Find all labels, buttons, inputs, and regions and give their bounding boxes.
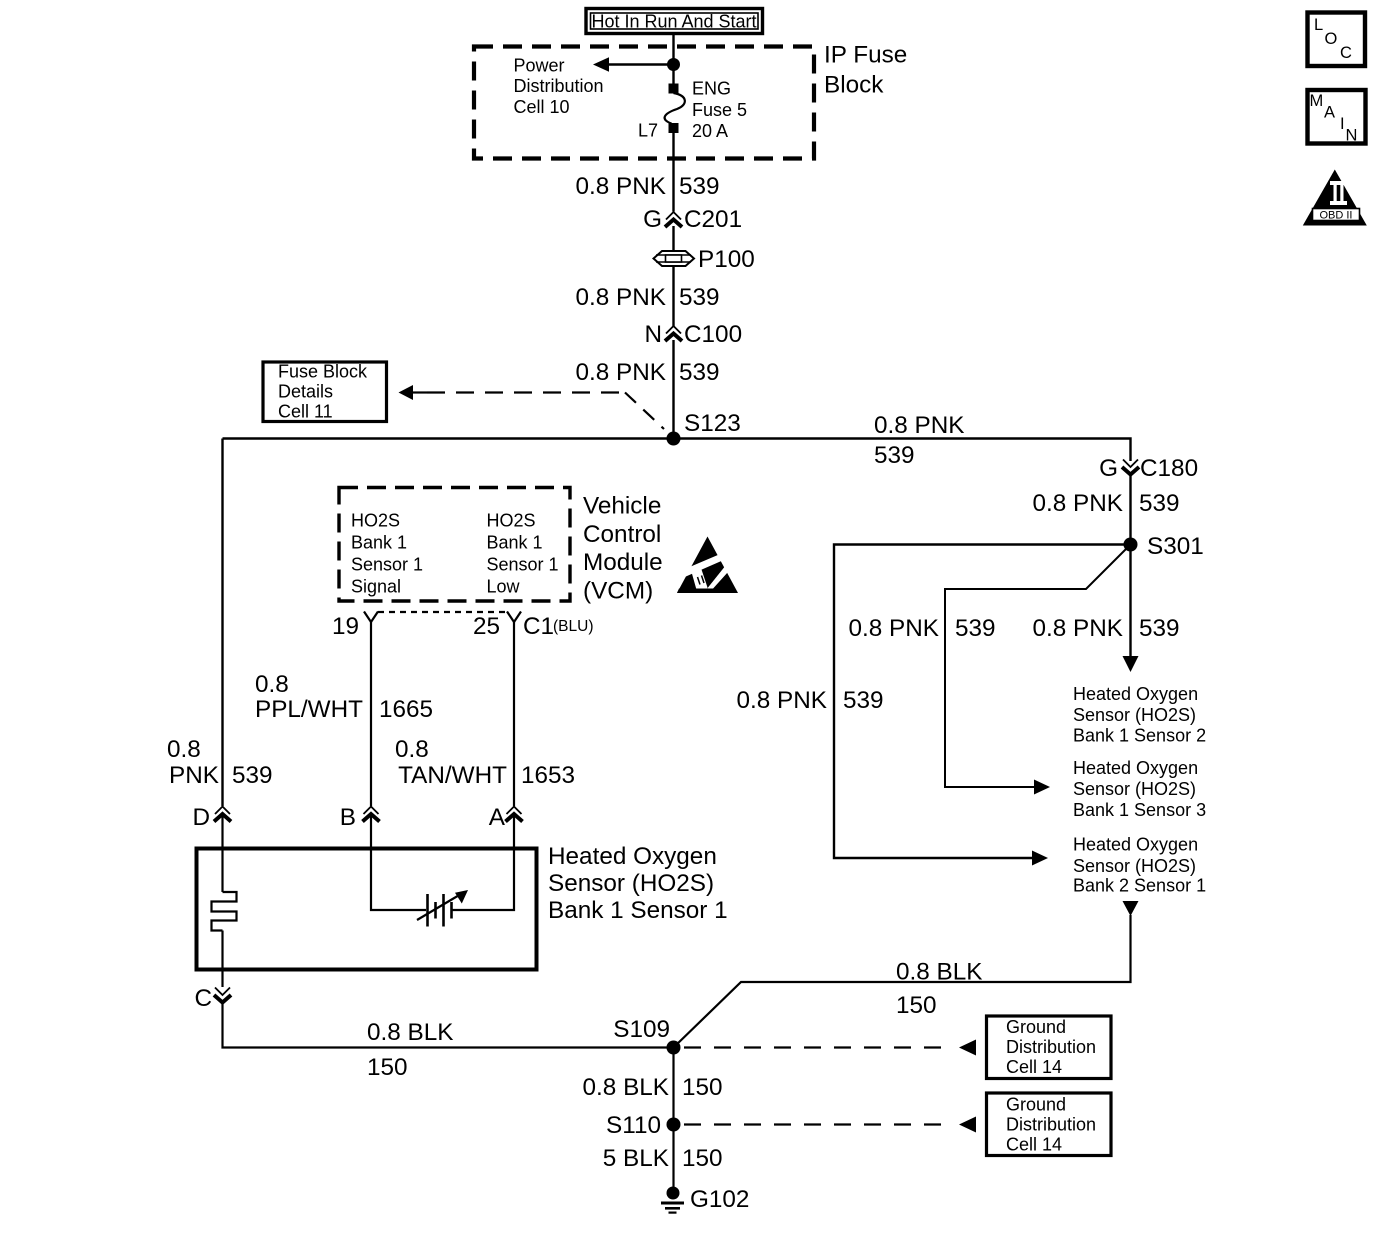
- svg-text:S301: S301: [1147, 533, 1204, 560]
- svg-text:0.8 PNK: 0.8 PNK: [576, 284, 667, 311]
- svg-text:539: 539: [843, 687, 884, 714]
- wire S123 left branch down to D: [221, 439, 223, 807]
- wire VCM pin 25 to A: [513, 622, 515, 806]
- svg-text:Sensor (HO2S): Sensor (HO2S): [1073, 705, 1196, 725]
- wire S123 to left branch: [223, 437, 674, 439]
- grommet P100: [654, 251, 695, 266]
- svg-text:150: 150: [682, 1145, 723, 1172]
- node Fuse Block Details Cell 11 box: [263, 362, 387, 422]
- svg-text:(BLU): (BLU): [553, 618, 593, 635]
- svg-text:Cell 10: Cell 10: [514, 97, 570, 117]
- wire sense element to A: [452, 813, 515, 910]
- wire S301 left branch to HO2S Bank 2 Sensor 1: [834, 545, 1131, 866]
- svg-text:Bank 1: Bank 1: [487, 533, 543, 553]
- ground G102: [661, 1186, 749, 1214]
- node wire label 0.8 PNK 539 (C100 to S123): [576, 359, 720, 386]
- node HO2S Bank 1 Sensor 2 label: [1073, 684, 1206, 746]
- svg-text:0.8 PNK: 0.8 PNK: [737, 687, 828, 714]
- wire S301 down to HO2S Bank 1 Sensor 2 arrow: [1123, 545, 1139, 673]
- connector pin C chevrons: [194, 985, 231, 1012]
- wire C180 to S301: [1129, 474, 1131, 544]
- svg-text:Fuse Block: Fuse Block: [278, 362, 368, 382]
- node connector C1 (BLU) label: [523, 613, 593, 640]
- wire dashed reference to Ground Distribution (S109): [684, 1040, 976, 1056]
- wire dashed connector C1 face line: [378, 611, 508, 613]
- svg-text:G: G: [643, 206, 662, 233]
- node splice S123: [667, 410, 741, 446]
- svg-text:Fuse 5: Fuse 5: [692, 100, 747, 120]
- node wire label 5 BLK 150: [603, 1145, 723, 1172]
- node VCM HO2S Low label: [487, 511, 559, 597]
- svg-text:Heated Oxygen: Heated Oxygen: [1073, 835, 1198, 855]
- svg-text:N: N: [1346, 127, 1358, 145]
- svg-text:S109: S109: [613, 1016, 670, 1043]
- wire from Hot banner into fuse: [672, 34, 674, 85]
- svg-text:P100: P100: [698, 246, 755, 273]
- wire C201 to P100: [672, 226, 674, 251]
- svg-text:Cell 14: Cell 14: [1006, 1135, 1062, 1155]
- node ENG Fuse 5 20 A label: [692, 79, 747, 142]
- svg-text:C100: C100: [684, 321, 742, 348]
- svg-text:HO2S: HO2S: [487, 511, 536, 531]
- node MAIN legend box: [1308, 90, 1366, 145]
- heater element (square wave): [212, 892, 237, 931]
- svg-text:Heated Oxygen: Heated Oxygen: [548, 843, 717, 870]
- svg-text:ENG: ENG: [692, 79, 731, 99]
- node connector C201 label: [643, 206, 742, 233]
- node HO2S Bank 1 Sensor 3 label: [1073, 758, 1206, 820]
- node wire label 0.8 BLK 150 (S109 to S110): [583, 1074, 723, 1101]
- svg-text:1665: 1665: [379, 696, 433, 723]
- wire fuse to S123: [672, 132, 674, 212]
- wire D into heater element: [221, 813, 223, 892]
- svg-text:Bank 1 Sensor 2: Bank 1 Sensor 2: [1073, 726, 1206, 746]
- svg-text:TAN/WHT: TAN/WHT: [398, 762, 507, 789]
- svg-text:G: G: [1099, 455, 1118, 482]
- node Ground Distribution Cell 14 box (upper): [987, 1016, 1112, 1079]
- connector pin A chevrons: [489, 804, 523, 831]
- svg-text:PNK: PNK: [169, 762, 219, 789]
- wire S123 to right branch: [674, 439, 1131, 462]
- svg-text:0.8: 0.8: [167, 736, 201, 763]
- svg-text:Bank 1: Bank 1: [351, 533, 407, 553]
- node wire label 0.8 PNK 539 (S123 right): [874, 412, 965, 469]
- svg-text:0.8: 0.8: [395, 736, 429, 763]
- svg-text:Sensor (HO2S): Sensor (HO2S): [548, 870, 714, 897]
- connector C180 pin G chevrons: [1122, 460, 1139, 475]
- svg-text:OBD II: OBD II: [1319, 210, 1352, 222]
- svg-text:Block: Block: [824, 72, 884, 99]
- node wire label 0.8 BLK 150 (to S109 diagonal): [896, 959, 982, 1020]
- svg-text:M: M: [1310, 92, 1324, 110]
- svg-text:539: 539: [1139, 490, 1180, 517]
- Heated Oxygen Sensor box: [197, 849, 537, 970]
- wire arrow to Power Distribution Cell 10: [593, 57, 674, 72]
- svg-text:150: 150: [367, 1054, 408, 1081]
- node wire label 0.8 PNK 539 (left branch): [167, 736, 273, 789]
- node Vehicle Control Module (VCM) label: [583, 493, 663, 605]
- svg-text:0.8 BLK: 0.8 BLK: [896, 959, 982, 986]
- svg-text:539: 539: [232, 762, 273, 789]
- svg-text:Cell 14: Cell 14: [1006, 1057, 1062, 1077]
- svg-text:1653: 1653: [521, 762, 575, 789]
- svg-text:0.8 BLK: 0.8 BLK: [367, 1019, 453, 1046]
- node VCM HO2S Signal label: [351, 511, 423, 597]
- node IP Fuse Block label: [824, 42, 907, 99]
- connector C201 pin G chevrons: [665, 212, 682, 227]
- svg-text:539: 539: [679, 284, 720, 311]
- svg-text:C: C: [1340, 44, 1352, 62]
- IP Fuse Block dashed box: [474, 47, 814, 159]
- svg-text:N: N: [644, 321, 662, 348]
- wire P100 to C100: [672, 266, 674, 326]
- svg-text:B: B: [340, 804, 356, 831]
- svg-text:G102: G102: [690, 1186, 749, 1213]
- svg-text:5 BLK: 5 BLK: [603, 1145, 669, 1172]
- node HO2S Bank 2 Sensor 1 label: [1073, 835, 1206, 896]
- node wire label 0.8 PNK 539 (C180 to S301): [1033, 490, 1180, 517]
- node splice S110: [606, 1112, 680, 1139]
- svg-text:Vehicle: Vehicle: [583, 493, 661, 520]
- connector C1 pin 25 Y symbol: [507, 612, 521, 623]
- svg-text:Sensor (HO2S): Sensor (HO2S): [1073, 779, 1196, 799]
- svg-text:150: 150: [896, 992, 937, 1019]
- svg-text:0.8 BLK: 0.8 BLK: [583, 1074, 669, 1101]
- wire S110 to G102: [672, 1125, 674, 1191]
- wire S301 diagonal branch to HO2S Bank 1 Sensor 3: [945, 548, 1127, 795]
- node Power Distribution Cell 10 label: [514, 56, 604, 118]
- svg-text:S123: S123: [684, 410, 741, 437]
- svg-text:Control: Control: [583, 521, 661, 548]
- wire dashed reference to Ground Distribution (S110): [684, 1117, 976, 1133]
- svg-text:Heated Oxygen: Heated Oxygen: [1073, 684, 1198, 704]
- svg-text:Sensor (HO2S): Sensor (HO2S): [1073, 856, 1196, 876]
- wire from HO2S Bank 2 Sensor 1 ground lead down to S109: [674, 901, 1139, 1048]
- svg-text:C180: C180: [1140, 455, 1198, 482]
- node Hot In Run And Start banner: [586, 9, 763, 34]
- svg-text:IP Fuse: IP Fuse: [824, 42, 907, 69]
- svg-text:Module: Module: [583, 549, 663, 576]
- svg-text:539: 539: [955, 615, 996, 642]
- svg-text:PPL/WHT: PPL/WHT: [255, 696, 363, 723]
- svg-text:Ground: Ground: [1006, 1017, 1066, 1037]
- svg-text:C201: C201: [684, 206, 742, 233]
- svg-text:HO2S: HO2S: [351, 511, 400, 531]
- node splice S109: [613, 1016, 680, 1055]
- svg-text:0.8 PNK: 0.8 PNK: [576, 173, 667, 200]
- svg-text:20 A: 20 A: [692, 121, 728, 141]
- node wire label 0.8 PNK 539 (branch to Bank 2 Sensor 1): [737, 687, 884, 714]
- svg-text:25: 25: [473, 613, 500, 640]
- svg-text:(VCM): (VCM): [583, 578, 653, 605]
- fuse ENG Fuse 5 20 A: [665, 84, 685, 134]
- wire C down to S109: [223, 1001, 674, 1048]
- svg-text:O: O: [1325, 30, 1338, 48]
- wire B inside sensor: [371, 813, 426, 910]
- svg-text:Sensor 1: Sensor 1: [351, 555, 423, 575]
- svg-text:A: A: [489, 804, 506, 831]
- svg-text:0.8 PNK: 0.8 PNK: [1033, 615, 1124, 642]
- node LOC legend box: [1308, 13, 1366, 67]
- svg-text:Bank 2 Sensor 1: Bank 2 Sensor 1: [1073, 876, 1206, 896]
- svg-text:I: I: [1340, 115, 1345, 133]
- svg-text:Distribution: Distribution: [514, 76, 604, 96]
- svg-text:0.8 PNK: 0.8 PNK: [874, 412, 965, 439]
- svg-text:539: 539: [679, 173, 720, 200]
- node splice S301: [1124, 533, 1204, 560]
- svg-text:A: A: [1324, 104, 1335, 122]
- svg-text:Ground: Ground: [1006, 1095, 1066, 1115]
- svg-text:S110: S110: [606, 1112, 661, 1139]
- node wire label 0.8 BLK 150 (C to S109): [367, 1019, 453, 1081]
- svg-text:19: 19: [332, 613, 359, 640]
- svg-text:539: 539: [679, 359, 720, 386]
- node OBD II legend symbol: [1303, 170, 1367, 226]
- wire heater to C: [221, 931, 223, 988]
- svg-text:Low: Low: [487, 577, 521, 597]
- svg-text:Bank 1 Sensor 1: Bank 1 Sensor 1: [548, 897, 728, 924]
- svg-text:Power: Power: [514, 56, 565, 76]
- node connector C180 label: [1099, 455, 1198, 482]
- svg-text:D: D: [192, 804, 210, 831]
- svg-text:Bank 1 Sensor 3: Bank 1 Sensor 3: [1073, 800, 1206, 820]
- node Heated Oxygen Sensor Bank 1 Sensor 1 label: [548, 843, 728, 924]
- svg-text:0.8: 0.8: [255, 671, 289, 698]
- Vehicle Control Module dashed box: [339, 488, 570, 602]
- svg-text:539: 539: [1139, 615, 1180, 642]
- node connector C100 label: [644, 321, 742, 348]
- wire VCM pin 19 to B: [370, 622, 372, 806]
- node wire label 0.8 PNK 539 (fuse to C201): [576, 173, 720, 200]
- junction in IP fuse block: [667, 58, 680, 71]
- svg-text:0.8 PNK: 0.8 PNK: [849, 615, 940, 642]
- node wire label 0.8 TAN/WHT 1653: [395, 736, 575, 789]
- svg-text:L7: L7: [638, 121, 658, 141]
- variable sense element with arrow: [417, 890, 468, 927]
- svg-text:0.8 PNK: 0.8 PNK: [1033, 490, 1124, 517]
- svg-text:Sensor 1: Sensor 1: [487, 555, 559, 575]
- svg-text:C: C: [194, 985, 212, 1012]
- node wire label 0.8 PNK 539 (S301 down): [1033, 615, 1180, 642]
- svg-text:539: 539: [874, 442, 915, 469]
- node wire label 0.8 PPL/WHT 1665: [255, 671, 433, 723]
- wire C100 to S123: [672, 340, 674, 438]
- svg-text:Distribution: Distribution: [1006, 1115, 1096, 1135]
- connector pin B chevrons: [340, 804, 380, 831]
- connector pin D chevrons: [192, 804, 231, 831]
- node wire label 0.8 PNK 539 (branch to Bank 1 Sensor 3): [849, 615, 996, 642]
- svg-text:0.8 PNK: 0.8 PNK: [576, 359, 667, 386]
- connector C1 pin 19 Y symbol: [364, 612, 378, 623]
- wire dashed reference arrow to Fuse Block Details: [399, 385, 665, 429]
- svg-text:Cell 11: Cell 11: [278, 402, 333, 422]
- connector C100 pin N chevrons: [665, 326, 682, 341]
- svg-text:Signal: Signal: [351, 577, 401, 597]
- svg-text:Hot In Run And Start: Hot In Run And Start: [591, 12, 756, 32]
- svg-text:Details: Details: [278, 382, 333, 402]
- svg-text:Distribution: Distribution: [1006, 1037, 1096, 1057]
- wire S109 to S110: [672, 1048, 674, 1125]
- node Ground Distribution Cell 14 box (lower): [987, 1093, 1112, 1156]
- node wire label 0.8 PNK 539 (P100 to C100): [576, 284, 720, 311]
- svg-text:L: L: [1314, 16, 1323, 34]
- svg-text:C1: C1: [523, 613, 554, 640]
- svg-text:Heated Oxygen: Heated Oxygen: [1073, 758, 1198, 778]
- ESD sensitive device symbol: [676, 537, 739, 594]
- svg-text:150: 150: [682, 1074, 723, 1101]
